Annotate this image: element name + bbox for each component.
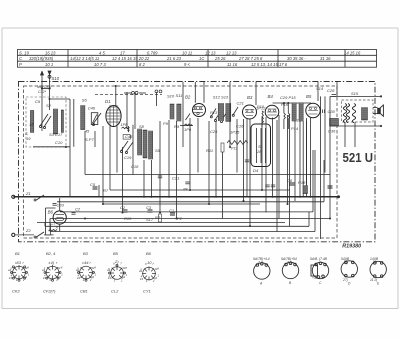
svg-text:B3: B3 (247, 95, 253, 100)
svg-text:B2: B2 (185, 95, 191, 100)
svg-text:D1: D1 (105, 99, 111, 104)
svg-text:S10: S10 (167, 94, 175, 99)
svg-text:X: X (55, 225, 59, 230)
svg-text:S17: S17 (146, 217, 154, 222)
svg-text:CL2: CL2 (111, 289, 119, 294)
svg-text:S10: S10 (52, 76, 60, 81)
svg-text:7): 7) (345, 261, 348, 265)
svg-text:28: 28 (256, 149, 262, 154)
svg-text:B2, 4: B2, 4 (46, 251, 56, 256)
svg-text:10 7 3: 10 7 3 (94, 62, 106, 67)
svg-text:C46: C46 (88, 106, 96, 111)
svg-text:8 2: 8 2 (139, 62, 145, 67)
svg-text:27): 27) (342, 278, 348, 282)
svg-text:R10: R10 (124, 216, 132, 221)
svg-text:521 U: 521 U (343, 150, 374, 165)
svg-text:C10: C10 (55, 140, 63, 145)
svg-text:21 6 23: 21 6 23 (166, 56, 182, 61)
svg-text:C2: C2 (75, 207, 81, 212)
svg-text:C33: C33 (57, 202, 65, 207)
svg-text:9 <: 9 < (184, 62, 190, 67)
svg-text:C26: C26 (210, 129, 218, 134)
svg-text:C3: C3 (146, 205, 152, 210)
svg-text:C36: C36 (328, 129, 336, 134)
svg-text:320(19)(935): 320(19)(935) (29, 56, 54, 61)
svg-text:D4: D4 (253, 168, 259, 173)
svg-text:S.P7: S.P7 (85, 137, 94, 142)
svg-text:10 1: 10 1 (45, 62, 53, 67)
svg-text:7): 7) (374, 261, 377, 265)
svg-text:1P15: 1P15 (230, 130, 240, 135)
svg-text:Z2: Z2 (25, 228, 31, 233)
svg-text:12 13: 12 13 (226, 50, 237, 55)
svg-text:12 5 13, 14 15 17 6: 12 5 13, 14 15 17 6 (251, 62, 288, 67)
svg-text:C8: C8 (287, 178, 293, 183)
svg-text:R9: R9 (174, 124, 180, 129)
svg-text:5A/B. (7.4B: 5A/B. (7.4B (310, 257, 328, 261)
svg-text:31 16: 31 16 (320, 56, 331, 61)
svg-text:C18: C18 (131, 164, 139, 169)
svg-text:S. 19: S. 19 (19, 50, 29, 55)
svg-text:P2: P2 (177, 216, 183, 221)
svg-text:53: 53 (17, 260, 22, 265)
svg-text:S14: S14 (316, 86, 324, 91)
svg-text:B4: B4 (268, 94, 274, 99)
svg-text:CK2: CK2 (12, 289, 21, 294)
svg-text:C21: C21 (172, 176, 179, 181)
svg-text:10 11: 10 11 (182, 50, 192, 55)
svg-text:B6: B6 (48, 210, 54, 215)
svg-text:2): 2) (114, 259, 119, 264)
svg-text:C29 P15: C29 P15 (280, 95, 296, 100)
svg-text:d8: d8 (183, 187, 188, 192)
svg-text:C2: C2 (120, 205, 126, 210)
svg-text:R7: R7 (103, 188, 109, 193)
svg-text:6.789: 6.789 (147, 50, 158, 55)
svg-text:S6: S6 (82, 97, 88, 102)
svg-text:R18: R18 (298, 180, 306, 185)
svg-text:B6: B6 (146, 251, 152, 256)
svg-text:19: 19 (26, 136, 31, 141)
svg-text:+32: +32 (312, 276, 318, 280)
svg-text:4 5: 4 5 (99, 50, 105, 55)
svg-text:R19380: R19380 (342, 243, 361, 249)
svg-text:R2: R2 (155, 215, 161, 220)
svg-text:B1: B1 (15, 251, 20, 256)
svg-text:27 28 7 25 8: 27 28 7 25 8 (238, 56, 263, 61)
svg-text:S11: S11 (176, 93, 183, 98)
svg-text:B3: B3 (83, 251, 89, 256)
svg-text:11 16: 11 16 (227, 62, 238, 67)
svg-text:P16: P16 (281, 102, 289, 107)
svg-text:30 35 36 -: 30 35 36 - (287, 56, 306, 61)
svg-text:B5: B5 (113, 251, 119, 256)
svg-text:B5: B5 (306, 94, 312, 99)
svg-text:14(12 3 14(5 11: 14(12 3 14(5 11 (70, 56, 99, 61)
svg-text:Z1: Z1 (25, 191, 31, 196)
svg-text:P9: P9 (163, 121, 169, 126)
svg-text:17: 17 (120, 50, 125, 55)
svg-text:C28: C28 (327, 88, 335, 93)
svg-text:C9: C9 (35, 99, 41, 104)
svg-text:R11: R11 (206, 148, 213, 153)
svg-text:C1: C1 (169, 208, 174, 213)
svg-text:7 3: 7 3 (287, 261, 292, 265)
svg-text:7 3: 7 3 (258, 261, 263, 265)
svg-text:C45: C45 (125, 134, 133, 139)
svg-text:CB1: CB1 (80, 289, 88, 294)
svg-text:C19: C19 (124, 155, 132, 160)
svg-text:S8: S8 (139, 124, 145, 129)
svg-text:14 15 16: 14 15 16 (344, 50, 361, 55)
svg-text:10: 10 (29, 122, 34, 127)
svg-text:CY1: CY1 (143, 289, 151, 294)
svg-text:S3 C17: S3 C17 (49, 132, 63, 137)
svg-text:C32*: C32* (38, 90, 47, 94)
svg-text:S2: S2 (46, 103, 52, 108)
svg-text:16 23: 16 23 (45, 50, 56, 55)
svg-text:S15: S15 (351, 91, 359, 96)
svg-text:25 26: 25 26 (214, 56, 226, 61)
svg-text:1P9: 1P9 (184, 127, 192, 132)
svg-text:C21: C21 (237, 101, 244, 106)
svg-text:12 13: 12 13 (205, 50, 216, 55)
svg-text:12 4 15 16 19 20 22: 12 4 15 16 19 20 22 (112, 56, 150, 61)
svg-text:P10: P10 (257, 104, 265, 109)
svg-text:C30: C30 (328, 109, 336, 114)
svg-text:45: 45 (85, 129, 90, 134)
svg-text:C5: C5 (90, 182, 96, 187)
svg-text:S12 S13: S12 S13 (213, 94, 229, 99)
svg-text:CF2(7): CF2(7) (43, 289, 56, 294)
svg-text:P: P (19, 62, 22, 67)
